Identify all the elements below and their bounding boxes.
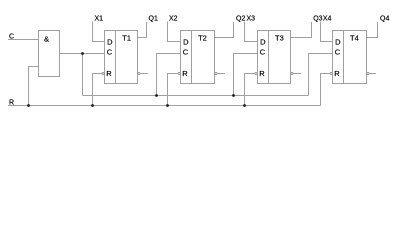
- wire X2 input to T2 D: [168, 22, 181, 42]
- svg-text:X3: X3: [247, 16, 256, 23]
- wire T1 R input drop: [93, 74, 102, 106]
- svg-text:R: R: [259, 69, 265, 78]
- svg-text:C: C: [260, 48, 266, 57]
- svg-text:T4: T4: [350, 34, 359, 43]
- svg-text:R: R: [106, 69, 112, 78]
- wire Q1 output: [138, 22, 147, 38]
- svg-text:X2: X2: [169, 16, 178, 23]
- wire R line: [8, 105, 321, 107]
- svg-text:Q4: Q4: [380, 16, 389, 23]
- svg-text:Q1: Q1: [149, 16, 158, 23]
- svg-text:C: C: [183, 48, 189, 57]
- junction dot clock rise T2: [155, 94, 158, 97]
- wire T4 R input rise from R line end: [321, 74, 330, 106]
- svg-text:D: D: [107, 38, 113, 47]
- T4 R input bubble: [330, 72, 332, 74]
- T1 inverse output bubble: [138, 72, 140, 74]
- wire and-gate lower input: [29, 67, 39, 106]
- wire T4 inverse output stub: [370, 73, 377, 75]
- svg-text:C: C: [335, 48, 341, 57]
- junction dot R line below and-gate: [27, 104, 30, 107]
- wire X3 input to T3 D: [245, 22, 258, 42]
- wire clock bus: [83, 95, 309, 97]
- T3 inverse output bubble: [291, 72, 293, 74]
- wire clock rise to T2 C input: [157, 54, 181, 96]
- wire T3 R input drop: [245, 74, 255, 106]
- svg-text:R: R: [9, 100, 14, 107]
- wire T2 R input drop: [168, 74, 178, 106]
- svg-text:Q3: Q3: [313, 16, 322, 23]
- svg-text:C: C: [107, 48, 113, 57]
- junction dot T3 R drop: [243, 104, 246, 107]
- svg-text:R: R: [182, 69, 188, 78]
- svg-text:T3: T3: [275, 34, 284, 43]
- wire X4 input to T4 D: [321, 22, 333, 42]
- T2 R input bubble: [178, 72, 180, 74]
- svg-text:X4: X4: [323, 16, 332, 23]
- wire clock rise to T3 C input: [234, 54, 258, 96]
- wire clock branch down: [82, 54, 84, 96]
- wire and-gate output to T1 C input: [60, 53, 105, 55]
- svg-text:Q2: Q2: [236, 16, 245, 23]
- flip-flop T3 box: [258, 31, 291, 84]
- svg-text:R: R: [334, 69, 340, 78]
- wire C input line: [8, 39, 39, 41]
- T2 inverse output bubble: [215, 72, 217, 74]
- flip-flop T4 box: [333, 31, 367, 84]
- wire T3 inverse output stub: [294, 73, 302, 75]
- wire clock rise to T4 C input: [309, 54, 333, 96]
- svg-text:D: D: [260, 38, 266, 47]
- wire T2 inverse output stub: [218, 73, 226, 75]
- svg-text:&: &: [44, 35, 49, 44]
- svg-text:C: C: [9, 34, 14, 41]
- wire Q3 output: [291, 22, 312, 38]
- svg-text:T1: T1: [122, 34, 131, 43]
- T3 R input bubble: [255, 72, 257, 74]
- flip-flop T1 box: [105, 31, 138, 84]
- junction dot T1 R drop: [91, 104, 94, 107]
- svg-text:T2: T2: [198, 34, 207, 43]
- svg-text:D: D: [335, 38, 341, 47]
- junction dot clock rise T3: [232, 94, 235, 97]
- wire Q2 output: [215, 22, 234, 38]
- and-gate DD1 box: [39, 31, 60, 77]
- junction dot clock branch: [81, 52, 84, 55]
- svg-text:D: D: [183, 38, 189, 47]
- T4 inverse output bubble: [367, 72, 369, 74]
- wire T1 inverse output stub: [141, 73, 149, 75]
- junction dot T2 R drop: [166, 104, 169, 107]
- flip-flop T2 box: [181, 31, 215, 84]
- wire X1 input to T1 D: [93, 22, 105, 42]
- T1 R input bubble: [102, 72, 104, 74]
- svg-text:X1: X1: [95, 16, 104, 23]
- wire Q4 output: [367, 22, 378, 38]
